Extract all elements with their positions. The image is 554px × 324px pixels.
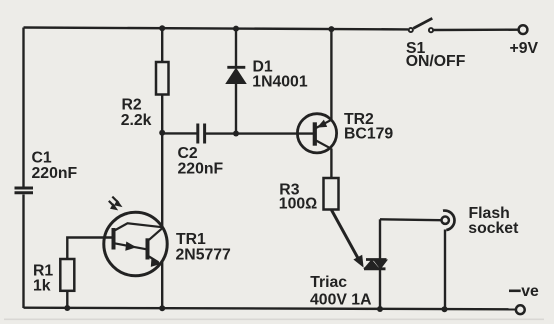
wire C2 right lead to TR2 base xyxy=(206,132,313,134)
wire flash socket down to rail xyxy=(444,230,446,310)
wire top rail right (switch to +9V terminal) xyxy=(434,29,519,32)
label Flash socket xyxy=(468,205,519,237)
terminal -ve xyxy=(516,305,525,314)
transistor TR2 (PNP BC179) xyxy=(297,114,336,153)
svg-text:C2: C2 xyxy=(178,145,198,162)
wire R2 column top lead xyxy=(161,28,163,62)
svg-text:TR1: TR1 xyxy=(176,231,206,248)
wire triac top lead up xyxy=(379,219,381,259)
svg-text:Triac: Triac xyxy=(310,274,347,291)
svg-text:400V 1A: 400V 1A xyxy=(310,292,371,309)
page shadow streak bottom xyxy=(4,319,544,321)
flash socket outer shell arc xyxy=(443,211,454,231)
wire triac bottom lead to rail xyxy=(379,269,381,309)
wire R2 bottom lead to node B xyxy=(161,95,163,133)
junction node top rail / R2 xyxy=(159,25,165,31)
wire left rail upper (top rail to C1) xyxy=(22,28,24,187)
resistor R1 xyxy=(60,259,74,291)
junction node top rail / D1 xyxy=(233,26,239,32)
svg-text:1k: 1k xyxy=(33,277,51,294)
capacitor C2 xyxy=(198,124,205,144)
svg-text:ON/OFF: ON/OFF xyxy=(406,53,466,70)
label Triac rating xyxy=(310,274,371,309)
label C2 value xyxy=(178,145,224,178)
resistor R3 xyxy=(324,178,339,210)
svg-text:+9V: +9V xyxy=(510,40,539,57)
light arrows into TR1 xyxy=(109,197,123,211)
wire triac to flash socket xyxy=(380,218,441,221)
junction node B (R2 / C2 / TR1 collector) xyxy=(159,130,165,136)
wire D1 bottom lead to C2 node xyxy=(235,83,237,134)
svg-text:C1: C1 xyxy=(32,149,52,166)
svg-text:R2: R2 xyxy=(122,97,142,114)
capacitor C1 xyxy=(15,188,34,193)
label R3 value xyxy=(279,182,318,213)
label TR1 value xyxy=(176,231,232,264)
label -ve xyxy=(509,289,521,292)
wire left rail lower (C1 to bottom rail) xyxy=(22,195,24,309)
label D1 value xyxy=(252,59,308,91)
wire D1 top lead xyxy=(235,29,237,67)
junction node top rail / TR2 emitter xyxy=(328,26,334,32)
svg-text:100Ω: 100Ω xyxy=(279,196,318,213)
wire TR2 collector lead down to R3 xyxy=(330,149,332,179)
switch S1 right contact xyxy=(429,28,433,32)
switch S1 left contact xyxy=(409,28,413,32)
wire R1 bottom lead xyxy=(66,291,68,308)
wire bottom rail xyxy=(24,308,516,310)
svg-text:BC179: BC179 xyxy=(344,126,393,143)
junction node bottom rail / triac xyxy=(377,306,383,312)
label C1 value xyxy=(32,149,78,182)
wire collector column (node B down to TR1 collector) xyxy=(161,133,163,227)
junction node bottom rail / R1 xyxy=(64,305,70,311)
label R2 value xyxy=(121,97,152,130)
junction node D1 / C2 wire xyxy=(233,131,239,137)
svg-text:2N5777: 2N5777 xyxy=(176,247,232,264)
junction node bottom rail / TR1 emitter xyxy=(159,305,165,311)
label S1 ON/OFF xyxy=(406,40,466,70)
svg-text:220nF: 220nF xyxy=(32,165,78,182)
svg-text:220nF: 220nF xyxy=(178,161,224,178)
flash socket inner pin ring xyxy=(442,217,449,224)
wire C2 left lead xyxy=(162,132,196,134)
switch S1 lever xyxy=(413,18,432,28)
label R1 value xyxy=(33,263,53,295)
terminal +9V xyxy=(519,25,528,34)
svg-text:ve: ve xyxy=(521,283,539,300)
label TR2 value xyxy=(344,111,393,143)
wire TR1 base to R1 xyxy=(67,238,111,260)
wire TR2 emitter lead up to top rail xyxy=(330,29,332,120)
wire triac gate lead (slanted with arrow) xyxy=(332,210,364,268)
diode D1 xyxy=(227,67,246,83)
wire top rail left (node +9V switched side) xyxy=(24,28,409,30)
resistor R2 xyxy=(156,62,169,95)
svg-text:socket: socket xyxy=(468,220,519,237)
svg-text:2.2k: 2.2k xyxy=(121,112,152,129)
junction node bottom rail / flash socket xyxy=(442,306,448,312)
phototransistor TR1 (2N5777 photodarlington) xyxy=(104,212,167,275)
svg-text:1N4001: 1N4001 xyxy=(252,74,308,91)
wire TR1 emitter to bottom rail xyxy=(161,262,163,308)
triac 400V 1A xyxy=(364,260,387,269)
